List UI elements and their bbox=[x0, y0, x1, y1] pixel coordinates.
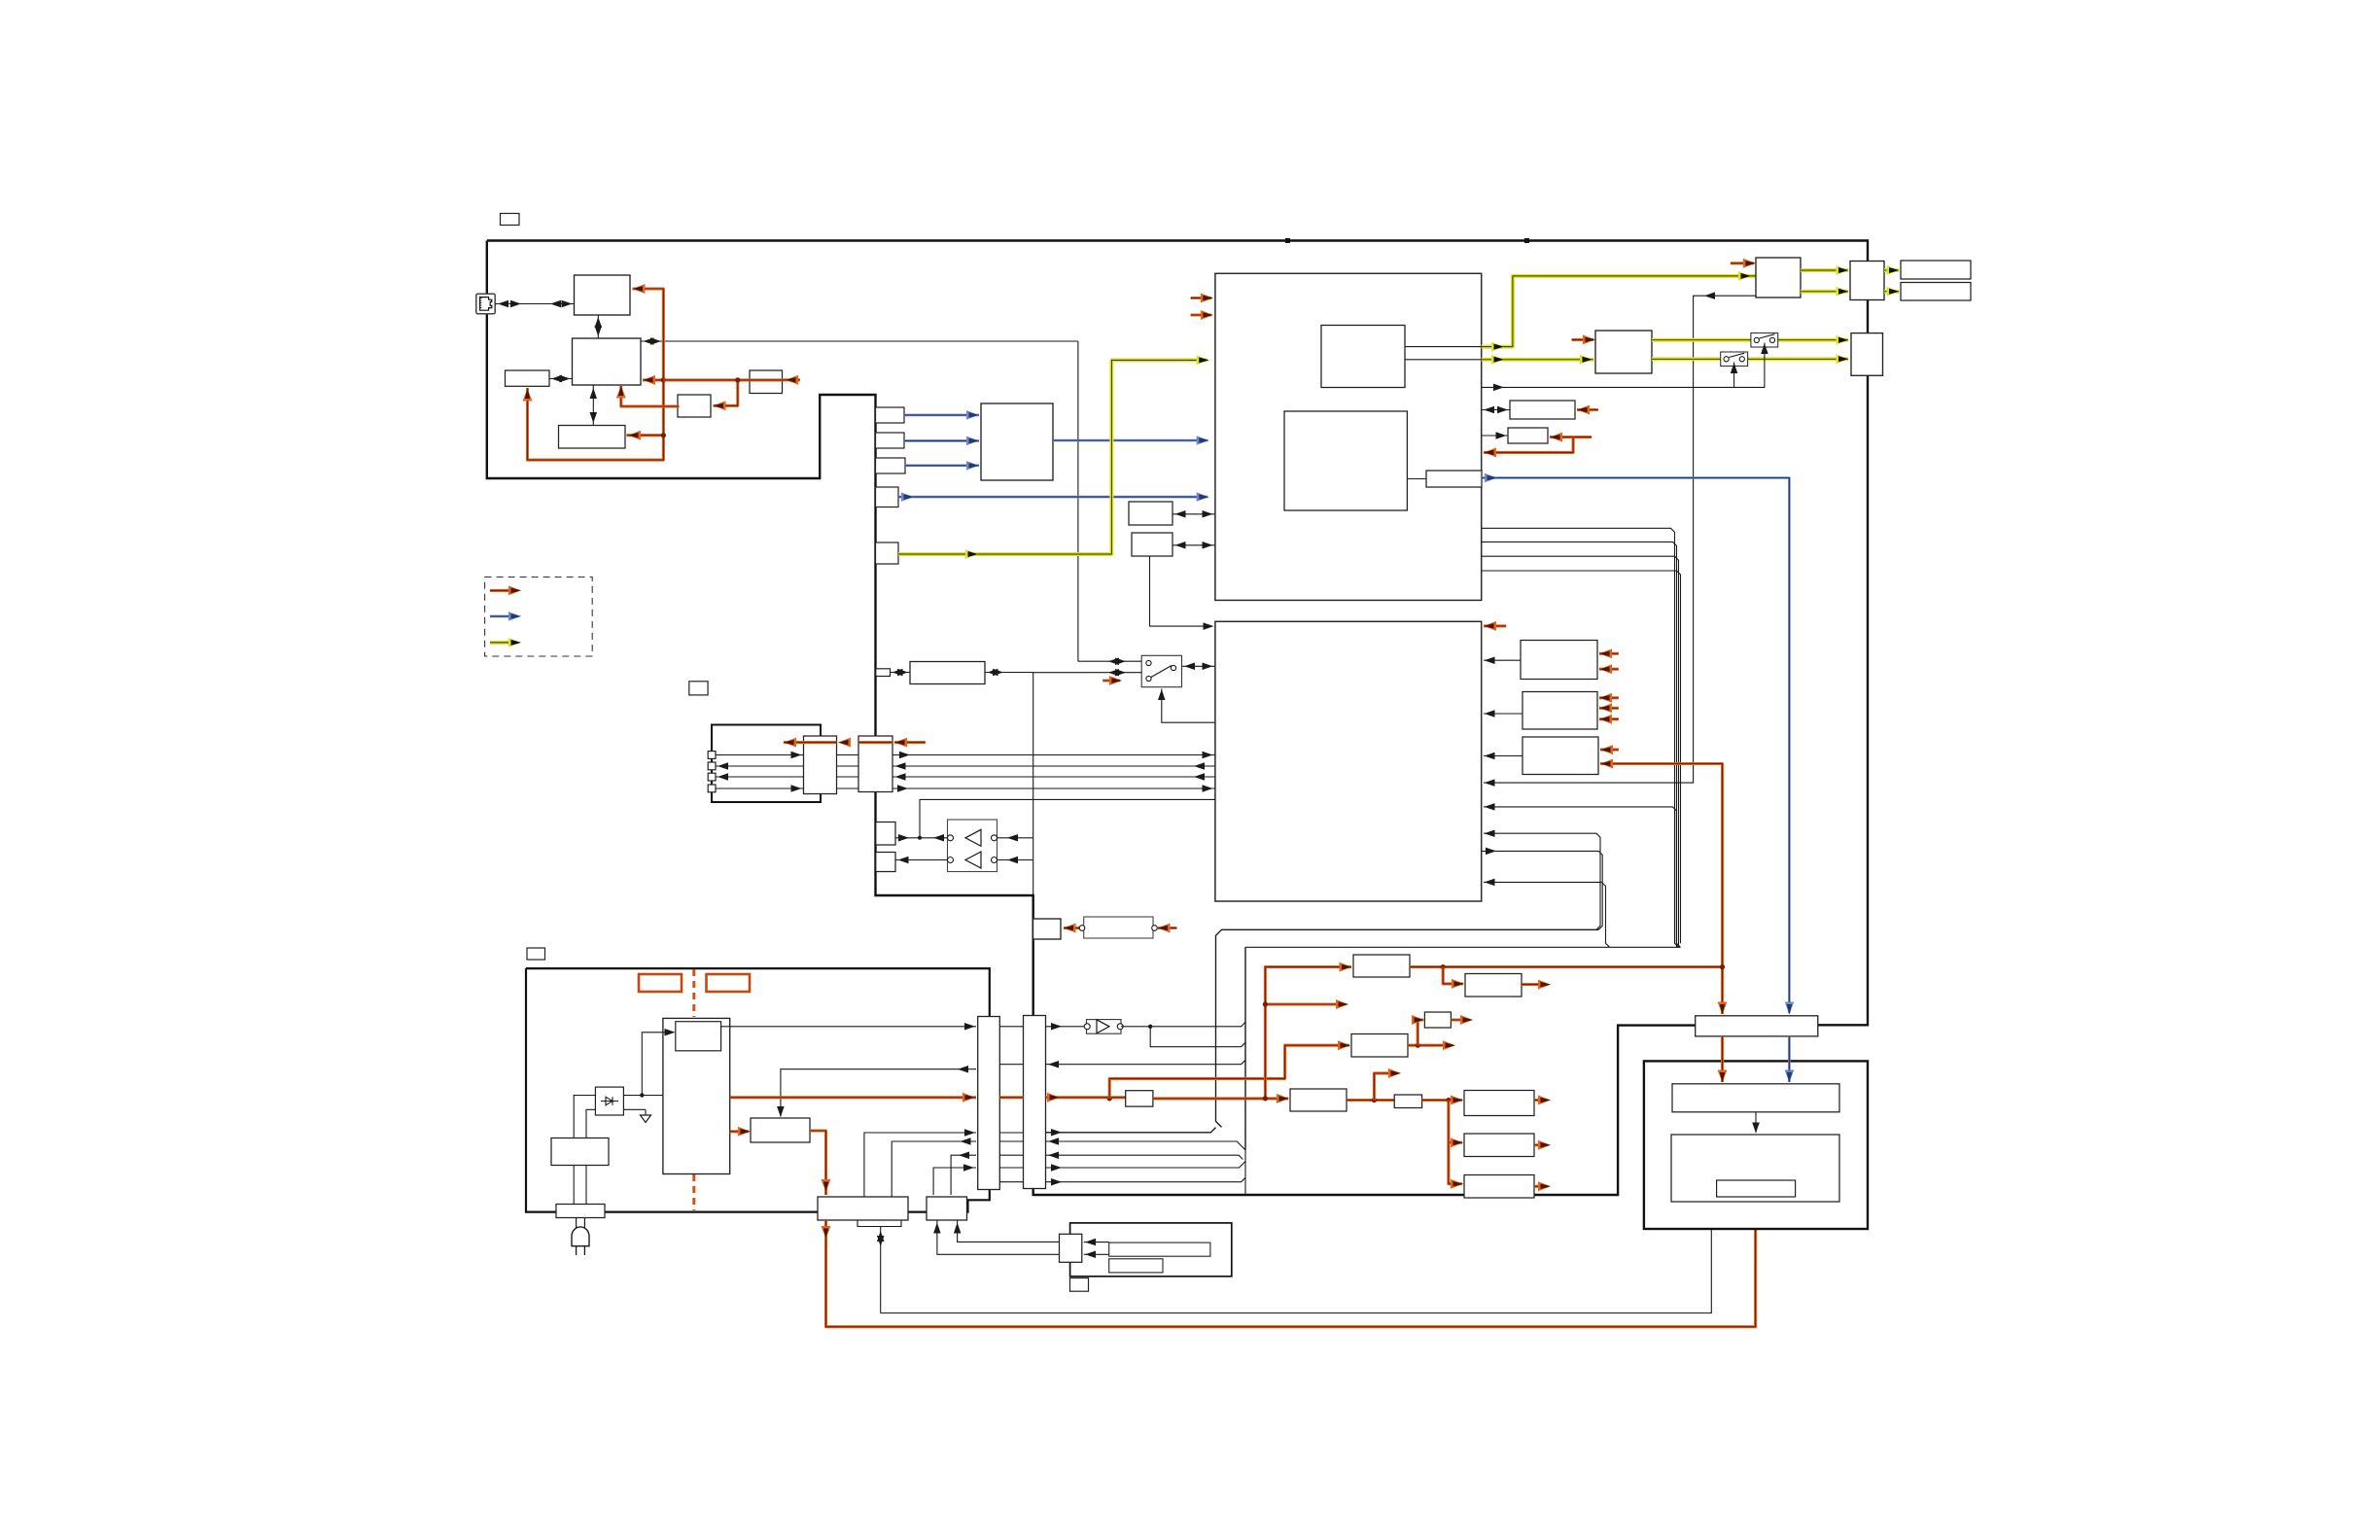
plug box bbox=[556, 1205, 605, 1218]
feedback wire box L to block2 bbox=[1484, 292, 1756, 787]
orange wire to box B right bbox=[643, 375, 666, 385]
yellow wire Q out2 through S2 to R bbox=[1652, 354, 1849, 364]
wire diode to primary with junction bbox=[623, 1093, 663, 1097]
wire trunk V1 bottom to CN2 1165 bbox=[1046, 1128, 1216, 1137]
box F bbox=[750, 370, 783, 394]
orange branch arrow 1033 bbox=[1263, 999, 1348, 1009]
box T3 panel cell bbox=[1671, 1135, 1839, 1202]
wire key3 from U bbox=[716, 773, 804, 781]
section label box sub bbox=[1070, 1278, 1089, 1292]
box L hdmi switch bbox=[1756, 258, 1801, 297]
wire W3 to block2 bbox=[1484, 752, 1522, 759]
section label box power bbox=[527, 948, 545, 960]
key square 1 bbox=[708, 752, 716, 759]
switch control wire from block1 bbox=[1482, 343, 1768, 392]
wire m1 junction up to block2 bbox=[920, 799, 1215, 837]
orange stub into block2 right 644 bbox=[1484, 621, 1506, 631]
port box p4 bbox=[876, 487, 899, 507]
blue wire p4 long to block1 bbox=[898, 492, 1278, 502]
orange wire V to U to T bbox=[784, 738, 926, 748]
wire SW control from block2 bbox=[1158, 689, 1215, 723]
diode bridge box bbox=[595, 1087, 623, 1115]
orange stub into box G right bbox=[1577, 405, 1598, 415]
port box p1 bbox=[876, 407, 905, 423]
wire T2 to T3 bbox=[1752, 1112, 1760, 1134]
wires SUB inner to connector bbox=[1084, 1239, 1109, 1258]
orange wire into box H and block1 bbox=[1484, 433, 1592, 458]
wire Y top line 1 to CN1 bbox=[864, 1129, 976, 1197]
orange stub into crystal right bbox=[1158, 924, 1177, 933]
orange isolation barrier rect 2 bbox=[707, 974, 751, 992]
wire block2 right 875 to panel border bbox=[1482, 848, 1603, 930]
orange stub P4 out bbox=[1451, 1015, 1473, 1025]
box V level shifter bbox=[858, 736, 892, 792]
box Y dc-dc bbox=[818, 1197, 908, 1220]
box T2 panel input bbox=[1672, 1084, 1839, 1112]
wires CN1 CN2 links bbox=[999, 1027, 1023, 1182]
orange wire P3 out with P4 branch bbox=[1408, 1015, 1455, 1050]
wire Y top line 2 from CN1 bbox=[892, 1137, 976, 1197]
wire CN2 line 1201 to trunk V2 bbox=[1046, 1162, 1246, 1172]
wire block2 right 830 bbox=[1484, 803, 1680, 947]
buffer pair outer box bbox=[948, 820, 997, 872]
orange isolation barrier rect 1 bbox=[639, 974, 682, 992]
wire box K to block1 double arrow bbox=[1172, 542, 1215, 549]
box N bbox=[1901, 261, 1971, 279]
buffer 1 inverter bbox=[895, 829, 1033, 846]
wire CN1 to Z lower bbox=[933, 1164, 976, 1195]
box P7 bbox=[1464, 1134, 1534, 1157]
box P5 bbox=[1290, 1089, 1347, 1111]
blue wire LVDS box I to panel bbox=[1482, 473, 1794, 1015]
wire CN1 to standby box bbox=[777, 1066, 976, 1117]
fuse box F2 bbox=[1394, 1095, 1421, 1108]
box B controller bbox=[573, 338, 642, 385]
box E bbox=[678, 395, 711, 417]
AC plug glyph bbox=[572, 1218, 589, 1256]
wire Y double arrow down to long rail bbox=[877, 1227, 885, 1313]
wire junction up to pfc box bbox=[642, 1029, 675, 1096]
wire block2 right 907 bbox=[1484, 879, 1610, 948]
yellow wire L to M upper bbox=[1801, 265, 1849, 275]
port box p2 bbox=[876, 433, 905, 448]
ground symbol bbox=[623, 1109, 650, 1122]
orange wire down into T1 bbox=[1718, 964, 1728, 1015]
wire V to block2 line4 bbox=[892, 785, 1215, 792]
box S eeprom bbox=[910, 662, 985, 684]
box R bbox=[1851, 333, 1883, 376]
wire V to block2 line2 bbox=[892, 762, 1215, 770]
legend yellow arrow bbox=[490, 638, 521, 647]
block1 main video processor bbox=[1215, 273, 1482, 600]
wire Z top link 2 bbox=[933, 1220, 1059, 1254]
inner box1 in block1 bbox=[1321, 326, 1405, 388]
box T1 panel connector bbox=[1696, 1016, 1818, 1036]
switch S1 bbox=[1751, 333, 1778, 348]
wire pfc to CN1 bbox=[721, 1023, 976, 1031]
box W3 bbox=[1522, 737, 1598, 775]
orange stubs into W2 bbox=[1599, 693, 1619, 724]
primary big box bbox=[663, 1018, 730, 1173]
box P8 bbox=[1464, 1175, 1534, 1199]
wire SW to block2 double arrow bbox=[1182, 663, 1215, 671]
wire key4 to U bbox=[716, 785, 804, 792]
box C bbox=[506, 370, 550, 386]
box P4 bbox=[1424, 1012, 1451, 1028]
box P3 bbox=[1351, 1034, 1408, 1058]
wire CN2 line 1215 to trunk V2 bbox=[1046, 1177, 1246, 1185]
wire border to T1 right bbox=[0, 0, 1, 1]
legend blue arrow bbox=[490, 612, 521, 621]
power section border bbox=[526, 968, 990, 1212]
box T4 inside T3 bbox=[1717, 1180, 1796, 1197]
key square 4 bbox=[708, 785, 716, 792]
wire CN1 to Z upper bbox=[951, 1152, 976, 1196]
wire CN2 line 1174 to trunk V2 bbox=[1046, 947, 1246, 1150]
wire box C to box B double arrow bbox=[549, 375, 573, 382]
DDR box bbox=[981, 403, 1053, 480]
buffer 2 inverter bbox=[895, 852, 1033, 868]
wire nub to box S double arrow bbox=[891, 669, 911, 676]
port box p3 bbox=[876, 458, 906, 473]
wire horizontal 974 collector bbox=[1245, 947, 1681, 1195]
wire V to block2 line3 bbox=[892, 773, 1215, 781]
wire from box B line into SW upper bbox=[1078, 658, 1141, 666]
crystal box X bbox=[1079, 917, 1157, 938]
wire box K bottom to block2 bbox=[1150, 556, 1214, 630]
orange dashed isolation line upper bbox=[692, 969, 695, 1017]
orange branch up to 1109 bbox=[1109, 1040, 1350, 1099]
wire W2 to block2 bbox=[1484, 710, 1522, 717]
wire diode to filter left bbox=[574, 1096, 595, 1138]
orange stub into W3 upper bbox=[1600, 745, 1619, 754]
wire filter to plug box bbox=[574, 1166, 586, 1205]
wire box S to SW lower bbox=[1033, 669, 1142, 677]
main board outline top/right border bbox=[487, 238, 1868, 1025]
orange wire box F to box E and B bottom bbox=[616, 377, 785, 410]
yellow wire Q out1 through S1 to R bbox=[1652, 335, 1849, 345]
yellow wire L to M lower bbox=[1801, 287, 1849, 297]
wire box B to box D vertical double arrow bbox=[590, 385, 598, 426]
wire bundle block1 line3 bbox=[1482, 556, 1679, 947]
orange wire junction to box D bbox=[627, 431, 667, 440]
orange main rail through F1 bbox=[1046, 1093, 1126, 1102]
orange wire long W3 to panel bbox=[1600, 759, 1723, 966]
orange wire F2 to P6 and down branch bbox=[1422, 1096, 1463, 1189]
panel module box bbox=[1644, 1061, 1868, 1229]
connector CN2 bbox=[1024, 1016, 1046, 1189]
SUB inner rect 1 bbox=[1109, 1242, 1210, 1256]
key square 3 bbox=[708, 773, 716, 781]
orange wire main power out bbox=[730, 1093, 976, 1102]
orange stub into box Q bbox=[1572, 334, 1595, 344]
port box p5 yellow source bbox=[876, 542, 899, 564]
wire block1 to box G double arrow bbox=[1482, 406, 1510, 413]
wire block2 right 857 bbox=[1484, 830, 1600, 930]
orange stub into box F right bbox=[785, 375, 800, 385]
box W1 bbox=[1521, 641, 1597, 680]
wire CN2 line 1094 from trunk bbox=[1046, 1060, 1246, 1067]
orange stub P8 out bbox=[1534, 1181, 1551, 1191]
wire box A to box B vertical double arrow bbox=[595, 315, 603, 338]
RJ45 connector icon bbox=[476, 294, 495, 314]
wire Z top link 1 bbox=[954, 1220, 1060, 1242]
wire RJ45 to box A with double arrows bbox=[495, 300, 574, 307]
orange wire P5 out junction stub bbox=[1347, 1068, 1401, 1102]
orange branch to P2 bbox=[1443, 967, 1464, 989]
orange wire main loop top-left bbox=[523, 284, 664, 460]
inner pfc box bbox=[676, 1022, 721, 1051]
yellow wire p5 to block1 bbox=[898, 355, 1315, 559]
switch box SW mux bbox=[1141, 655, 1181, 686]
wire buffer out with branch bbox=[1121, 1022, 1245, 1046]
orange stub into SW bbox=[1102, 676, 1122, 685]
orange trunk to P1 P2 bbox=[1263, 962, 1352, 1102]
blue wire DDR out to block1 bbox=[1053, 367, 1316, 445]
small box left of crystal bbox=[1033, 919, 1062, 939]
box P1 bbox=[1353, 955, 1410, 977]
inner box2 in block1 bbox=[1284, 411, 1407, 510]
port nub box on border bbox=[876, 669, 891, 677]
wire W1 to block2 bbox=[1484, 657, 1521, 665]
box W2 bbox=[1522, 692, 1597, 730]
blue wire p1 to DDR bbox=[904, 410, 979, 420]
keyboard block T bbox=[712, 725, 821, 803]
connector CN1 bbox=[978, 1017, 1000, 1190]
long black rail to panel bbox=[881, 1206, 1715, 1313]
wire key2 from U bbox=[716, 762, 804, 770]
bracket under box Y bbox=[857, 1220, 901, 1227]
fuse box F1 bbox=[1126, 1091, 1153, 1106]
orange dashed isolation line lower bbox=[692, 1174, 695, 1210]
orange stubs into W1 bbox=[1599, 648, 1619, 674]
standby box bbox=[751, 1118, 810, 1142]
box I LVDS tx bbox=[1426, 471, 1482, 487]
legend orange arrow bbox=[490, 585, 521, 595]
wire block2 right 805 from feedback bbox=[0, 0, 1, 1]
blue wire T1 to T2 bbox=[1785, 1036, 1795, 1083]
box O bbox=[1901, 283, 1971, 301]
wire diode to filter right bbox=[586, 1109, 595, 1137]
orange stub into box L bbox=[1731, 259, 1756, 268]
legend dashed box bbox=[485, 577, 593, 657]
wire box2 to box I bbox=[1407, 478, 1426, 480]
orange branch to P7 bbox=[1449, 1137, 1463, 1147]
yellow wire M to O bbox=[1884, 287, 1900, 297]
box P2 bbox=[1465, 974, 1522, 997]
wire box J to block1 double arrow bbox=[1172, 510, 1215, 518]
orange stub into block1 left lower bbox=[1191, 310, 1213, 320]
box G bbox=[1510, 401, 1575, 419]
wire block1 to box H bbox=[1482, 432, 1508, 439]
box H bbox=[1508, 428, 1548, 443]
wire V to block2 line1 bbox=[892, 752, 1215, 758]
buffer gate after CN2 bbox=[1046, 1020, 1124, 1034]
SUB connector small box bbox=[1060, 1234, 1082, 1262]
orange stub into block1 left upper bbox=[1191, 294, 1213, 303]
box J bbox=[1129, 502, 1172, 525]
wire CN2 line 1188 to trunk V2 bbox=[1046, 1152, 1243, 1160]
orange wire Y down to bottom rail bbox=[822, 1199, 1761, 1327]
wire box S right double arrow bbox=[985, 669, 1033, 895]
small box m1 on border bbox=[876, 822, 895, 846]
key square 2 bbox=[708, 762, 716, 770]
orange stub P2 out bbox=[1522, 980, 1551, 990]
SUB board box bbox=[1070, 1223, 1232, 1277]
main board outline left/bottom border bbox=[487, 241, 1696, 1196]
box P6 bbox=[1464, 1091, 1534, 1116]
orange wire standby to box Y down bbox=[810, 1131, 831, 1195]
box U key encoder bbox=[804, 736, 837, 794]
box D bbox=[559, 426, 626, 449]
orange wire T1 to T2 bbox=[1718, 1036, 1728, 1083]
blue wire p3 to DDR bbox=[905, 461, 979, 471]
filter box bbox=[551, 1138, 609, 1166]
orange link CN1 CN2 bbox=[999, 1096, 1023, 1099]
orange stub into left box bbox=[1064, 924, 1080, 933]
box M bbox=[1850, 262, 1884, 300]
section label box center bbox=[689, 682, 708, 695]
wires U to V four links bbox=[837, 755, 859, 789]
wire key1 to U bbox=[716, 752, 804, 758]
box A ethernet phy bbox=[575, 275, 631, 315]
switch S2 bbox=[1721, 352, 1748, 367]
wire box B right to junction line going down bbox=[641, 337, 1078, 661]
orange stub P6 out bbox=[1534, 1096, 1551, 1105]
box Q hdmi rx bbox=[1595, 331, 1652, 373]
wire bundle block1 line1 bbox=[1482, 528, 1679, 947]
section label box top-left bbox=[501, 214, 520, 226]
SUB inner rect 2 bbox=[1109, 1259, 1163, 1273]
wire bundle block1 line2 bbox=[1482, 542, 1677, 947]
yellow wire block1 out2 to box Q bbox=[1405, 355, 1593, 365]
wire box E bottom-left to box B bbox=[0, 0, 1, 1]
yellow wire block1 out1 to top right bbox=[1405, 271, 1756, 352]
orange stub into block1 right at 643 bbox=[0, 0, 1, 1]
orange rail F1 to P5 bbox=[1107, 1094, 1289, 1103]
panel top border wire bbox=[1216, 929, 1599, 1127]
box Z standby reg bbox=[927, 1197, 967, 1220]
yellow wire M to N bbox=[1884, 265, 1900, 275]
block2 main controller bbox=[1215, 621, 1482, 901]
wire bundle block1 line4 bbox=[1482, 571, 1681, 943]
orange stub primary to standby bbox=[730, 1127, 751, 1137]
box K bbox=[1132, 533, 1172, 556]
blue wire p2 to DDR bbox=[904, 437, 979, 446]
orange wire P1 out long to panel junction bbox=[1410, 964, 1723, 969]
small box m2 on border bbox=[876, 853, 895, 872]
orange stub P7 out bbox=[1534, 1140, 1551, 1150]
